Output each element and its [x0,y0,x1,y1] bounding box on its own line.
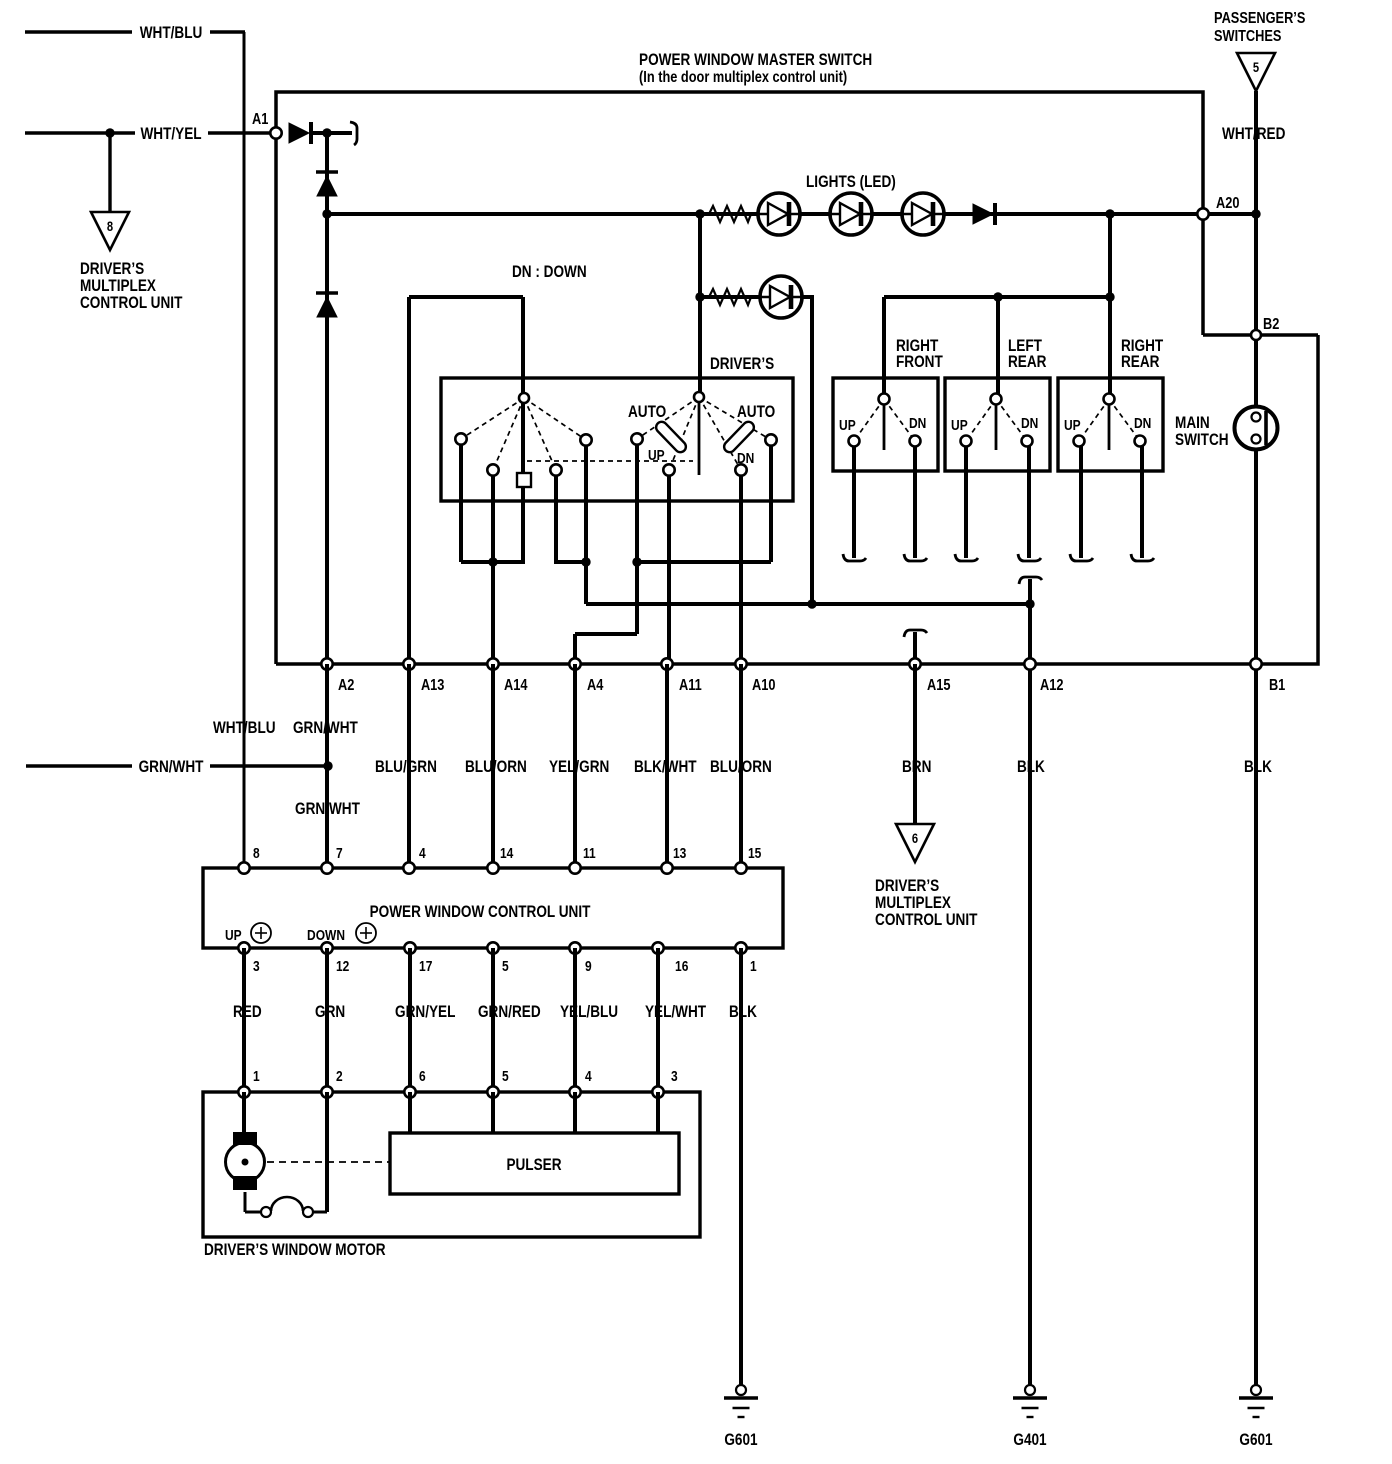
svg-text:3: 3 [671,1068,678,1085]
diode D3 (pointing up) [316,291,338,295]
ground G601 (driver) [736,1385,746,1395]
svg-text:DN: DN [909,415,926,432]
svg-text:11: 11 [583,845,596,862]
wire feed to left rear switch common [996,297,1000,399]
svg-text:5: 5 [1253,60,1259,75]
crossover wire to A12 net [586,602,1030,606]
wire RED control unit to motor [242,948,246,1092]
bus wire joining AUTO terminals [637,560,771,564]
LED L3 [902,193,944,235]
svg-text:2: 2 [336,1068,343,1085]
wire DN terminal down to A10 [739,470,743,664]
wire AUTO-right terminal down [769,440,773,562]
dashed contact line right pivot to DN terminal [699,397,741,470]
svg-text:CONTROL UNIT: CONTROL UNIT [80,294,183,313]
svg-text:A20: A20 [1216,195,1239,213]
wire GRN/WHT feed (left segment) [26,764,132,767]
dashed mechanical link between pivots [527,460,693,462]
dashed contact line left pivot to terminal 1 [461,398,524,439]
power window control unit box [203,868,783,948]
motor unit pin 2 [321,1086,332,1097]
svg-text:A1: A1 [252,111,268,129]
driver's switch terminal 4 [580,434,591,445]
wire BLK from A12 to ground G401 [1028,664,1032,1385]
svg-text:DRIVER’S: DRIVER’S [80,260,144,279]
continuation tick A12 feed [1019,577,1042,584]
junction AUTO bus [632,557,641,566]
wire GRN/RED control unit to motor [491,948,495,1092]
motor M1 [226,1143,265,1182]
control unit pin 14 [487,862,498,873]
wire A13 net vertical [407,297,411,664]
control unit pin 8 [238,862,249,873]
svg-text:MAIN: MAIN [1175,414,1210,433]
dashed contact line right pivot to UP terminal [669,397,699,470]
terminal A20 [1197,208,1208,219]
svg-text:UP: UP [1064,417,1081,434]
control unit pin 3 [238,942,249,953]
bus wire joining terminals 1-2 (A14 net) [461,560,525,564]
wire WHT/BLU feed (left segment) [25,30,132,33]
control unit pin 12 [321,942,332,953]
wire GRN/WHT net vertical (A1 to A2) [325,133,329,664]
junction A20 wire / WHT/RED vertical [1251,209,1260,218]
junction GRN/WHT feed / A2 net [323,761,332,770]
wire A13 net down to driver's switch pivot [521,297,525,562]
svg-text:GRN/WHT: GRN/WHT [293,719,358,738]
wire terminal 4 down to crossover bus [584,440,588,604]
svg-text:RED: RED [233,1003,262,1022]
svg-text:REAR: REAR [1121,353,1159,372]
motor unit pin 6 [404,1086,415,1097]
svg-text:6: 6 [419,1068,426,1085]
svg-text:SWITCH: SWITCH [1175,431,1229,450]
driver's switch DN terminal [735,464,746,475]
UP indicator lamp [251,923,271,943]
wire motor lower brush to jumper [244,1192,247,1212]
main switch S1 [1235,407,1278,450]
LED L1 [758,193,800,235]
svg-text:A15: A15 [927,677,950,695]
diode D2 (pointing up) [316,170,338,174]
continuation tick right front DN [904,554,927,561]
wire BRN from A15 to ref triangle 6 [913,664,917,824]
wire WHT/YEL feed (right segment) [208,131,272,134]
driver's switch terminal 2 [487,464,498,475]
junction of LED supply row [322,209,331,218]
wire jog to A4 [575,632,637,636]
wire jumper to pin 2 line [313,1211,327,1214]
driver's switch AUTO-left terminal [631,433,642,444]
wire BLU/ORN from A10 to pin 15 [739,664,743,868]
wire A15 stub [913,632,917,664]
driver's switch AUTO-right terminal [765,434,776,445]
junction A14 bus [488,557,497,566]
wire right rear UP output [1079,446,1083,558]
junction LED L4 output / crossover wire [807,599,816,608]
wire continuation tick after D1 [350,122,357,145]
wire BLK/WHT from A11 to pin 13 [665,664,669,868]
wire main switch to terminal B1 [1254,449,1258,664]
driver's window motor box [203,1092,700,1237]
terminal B2 [1251,330,1261,340]
control unit pin 4 [403,862,414,873]
svg-text:13: 13 [673,845,687,862]
wire terminal 1 down to A14 bus [459,439,463,562]
svg-text:DN: DN [1134,415,1151,432]
driver's switch left pivot square terminal [517,473,531,487]
continuation tick left rear DN [1018,554,1041,561]
svg-text:BLK: BLK [729,1003,757,1022]
wire WHT/BLU vertical to control unit pin 8 [243,32,246,868]
control unit pin 7 [321,862,332,873]
wire BLU/GRN from A13 to pin 4 [407,664,411,868]
svg-text:A13: A13 [421,677,444,695]
svg-text:DRIVER’S: DRIVER’S [710,355,774,374]
wire A20 to WHT/RED line [1203,212,1256,216]
svg-text:WHT/YEL: WHT/YEL [140,125,201,144]
svg-text:12: 12 [336,958,350,975]
junction LED row 1 / driver's switch supply [695,209,704,218]
svg-text:A4: A4 [587,677,603,695]
svg-text:BLK/WHT: BLK/WHT [634,758,697,777]
svg-text:PULSER: PULSER [506,1156,561,1175]
svg-text:8: 8 [107,219,113,234]
svg-text:(In the door multiplex control: (In the door multiplex control unit) [639,69,847,87]
control unit pin 13 [661,862,672,873]
svg-text:SWITCHES: SWITCHES [1214,28,1282,46]
svg-text:YEL/WHT: YEL/WHT [645,1003,707,1022]
svg-text:4: 4 [585,1068,592,1085]
driver's switch AUTO paddle (right) [722,420,756,455]
driver's switch box [441,378,793,501]
svg-text:DOWN: DOWN [307,927,345,944]
svg-text:1: 1 [253,1068,260,1085]
svg-text:POWER WINDOW CONTROL UNIT: POWER WINDOW CONTROL UNIT [370,903,591,922]
wire right front DN output [913,446,917,558]
svg-text:A12: A12 [1040,677,1063,695]
driver's switch AUTO paddle (left) [654,420,688,455]
driver's switch right pivot actuator [698,397,701,475]
terminal A13 [403,658,414,669]
ground G601 (right) [1251,1385,1261,1395]
pulser box [390,1133,679,1194]
svg-text:BLU/ORN: BLU/ORN [465,758,527,777]
wire feed to right rear switch common [1108,214,1112,398]
connector ref triangle 5 (passenger's switches) [1237,53,1275,91]
terminal A10 [735,658,746,669]
junction feed / right rear [1105,292,1114,301]
control unit pin 16 [652,942,663,953]
svg-text:BLK: BLK [1017,758,1045,777]
svg-text:DN: DN [1021,415,1038,432]
svg-text:UP: UP [839,417,856,434]
svg-text:6: 6 [912,831,918,846]
motor unit pin 4 [569,1086,580,1097]
svg-text:B1: B1 [1269,677,1285,695]
wire BLK from B1 to ground G601 [1254,664,1258,1385]
junction at A1 diode output [322,128,331,137]
terminal A12 [1024,658,1035,669]
svg-text:A2: A2 [338,677,354,695]
dashed contact line left pivot to terminal 3 [524,398,556,470]
svg-text:DRIVER’S: DRIVER’S [875,877,939,896]
driver's switch terminal 3 [550,464,561,475]
svg-text:4: 4 [419,845,426,862]
svg-text:1: 1 [750,958,757,975]
terminal A1 [270,127,281,138]
svg-text:AUTO: AUTO [628,403,666,422]
svg-text:UP: UP [648,447,665,464]
svg-text:BLU/ORN: BLU/ORN [710,758,772,777]
svg-text:DN : DOWN: DN : DOWN [512,263,587,282]
ground G401 [1025,1385,1035,1395]
wire AUTO bus down [635,562,639,634]
wire LED row 2 [700,295,813,299]
junction feed / left rear [993,292,1002,301]
svg-text:UP: UP [951,417,968,434]
motor unit pin 5 [487,1086,498,1097]
svg-text:DRIVER’S WINDOW MOTOR: DRIVER’S WINDOW MOTOR [204,1241,386,1260]
wire GRN/YEL control unit to motor [408,948,412,1092]
svg-text:G401: G401 [1013,1431,1047,1450]
wire feed to right front switch common [882,297,886,399]
svg-text:REAR: REAR [1008,353,1046,372]
svg-text:G601: G601 [1239,1431,1273,1450]
svg-text:7: 7 [336,845,343,862]
wire BLK from pin 1 to ground G601 [739,948,743,1385]
diode D1 after terminal A1 [289,123,309,143]
power window master switch boundary box [276,92,1318,664]
svg-text:14: 14 [500,845,514,862]
svg-text:9: 9 [585,958,592,975]
dashed contact line left pivot to terminal 2 [493,398,524,470]
wire terminal 3 down to A4 bus [554,470,558,562]
svg-text:5: 5 [502,958,509,975]
wire YEL/BLU control unit to motor [573,948,577,1092]
continuation tick right rear DN [1131,554,1154,561]
control unit pin 9 [569,942,580,953]
junction terminal-4 bus [581,557,590,566]
LED L4 [760,276,802,318]
svg-text:PASSENGER’S: PASSENGER’S [1214,10,1306,28]
wire motor pin to pulser [573,1092,577,1133]
wire UP terminal down to A11 [667,470,671,664]
svg-text:5: 5 [502,1068,509,1085]
wire drop to driver's multiplex control unit ref 8 [108,133,111,212]
wire WHT/YEL feed (left segment) [25,131,135,134]
wire GRN/WHT feed (right segment) [210,764,328,767]
svg-text:POWER WINDOW MASTER SWITCH: POWER WINDOW MASTER SWITCH [639,51,872,70]
wire stub after diode D1 [313,131,352,135]
svg-text:15: 15 [748,845,762,862]
wire YEL/WHT control unit to motor [656,948,660,1092]
diode D4 in LED row 1 [973,204,993,224]
wire passenger switch common feed [884,295,1110,299]
dashed contact line left pivot to terminal 4 [524,398,586,440]
svg-text:8: 8 [253,845,260,862]
wire LED L4 output down to A12 net [810,295,814,604]
LED L2 [830,193,872,235]
continuation tick A15 feed [904,630,927,637]
resistor R1 in LED row 1 [709,206,751,222]
svg-text:YEL/GRN: YEL/GRN [549,758,609,777]
DOWN indicator lamp [356,923,376,943]
wire LED row 1 (A20 net) [327,212,1203,216]
svg-text:16: 16 [675,958,689,975]
control unit pin 5 [487,942,498,953]
terminal A15 [909,658,920,669]
svg-text:UP: UP [225,927,242,944]
svg-text:FRONT: FRONT [896,353,943,372]
svg-text:WHT/BLU: WHT/BLU [140,24,203,43]
wire left rear DN output [1027,446,1031,558]
wire WHT/RED vertical [1254,91,1258,412]
terminal A2 [321,658,332,669]
svg-text:GRN/WHT: GRN/WHT [139,758,204,777]
driver's switch right pivot [694,392,704,402]
continuation tick right front UP [843,554,866,561]
dashed mechanical link motor to pulser [267,1161,390,1163]
wire down to A4 [573,634,577,664]
wire left rear UP output [964,446,968,558]
terminal A14 [487,658,498,669]
svg-text:B2: B2 [1263,316,1279,334]
svg-text:17: 17 [419,958,432,975]
svg-text:BLU/GRN: BLU/GRN [375,758,437,777]
wire motor pin to pulser [656,1092,660,1133]
terminal A11 [661,658,672,669]
right rear switch [1058,378,1163,471]
control unit pin 1 [735,942,746,953]
terminal A4 [569,658,580,669]
wire GRN control unit to motor [325,948,329,1092]
continuation tick left rear UP [955,554,978,561]
left rear switch [945,378,1050,471]
junction LED row 1 / right rear switch feed [1105,209,1114,218]
wire WHT/BLU feed (right segment) [210,30,245,33]
driver's switch terminal 1 [455,433,466,444]
svg-text:BLK: BLK [1244,758,1272,777]
svg-text:BRN: BRN [902,758,931,777]
junction crossover wire / A12 drop [1025,599,1034,608]
motor unit pin 3 [652,1086,663,1097]
junction LED row 2 [695,292,704,301]
junction on WHT/YEL wire [105,128,114,137]
svg-text:MULTIPLEX: MULTIPLEX [875,894,952,913]
right front switch [833,378,938,471]
wire pin 1 to motor brush [242,1092,246,1133]
wire terminal 2 down to A14 [491,470,495,664]
continuation tick right rear UP [1070,554,1093,561]
wire from LED row 1 junction down to driver's switch pivot [698,214,702,397]
wire right front UP output [852,446,856,558]
svg-text:A11: A11 [679,677,702,695]
driver's switch UP terminal [663,464,674,475]
wire A13 net jog [409,295,523,299]
connector ref triangle 6 (driver's multiplex control unit) [896,824,934,862]
motor unit pin 1 [238,1086,249,1097]
wire motor pin to pulser [491,1092,495,1133]
wire pin 2 down inside motor box [325,1092,329,1212]
resistor R2 in LED row 2 [709,289,751,305]
motor jumper contacts and arc [261,1207,271,1217]
svg-text:WHT/BLU: WHT/BLU [213,719,276,738]
svg-text:DN: DN [737,450,754,467]
svg-text:YEL/BLU: YEL/BLU [560,1003,618,1022]
svg-text:GRN/RED: GRN/RED [478,1003,541,1022]
control unit pin 17 [404,942,415,953]
connector ref triangle 8 (driver's multiplex control unit) [91,212,129,250]
wire A12 stub [1028,579,1032,664]
wire motor pin to pulser [408,1092,412,1133]
wire YEL/GRN from A4 to pin 11 [573,664,577,868]
svg-text:AUTO: AUTO [737,403,775,422]
svg-text:A10: A10 [752,677,775,695]
wire GRN/WHT from A2 to pin 7 [325,664,329,868]
svg-text:GRN/YEL: GRN/YEL [395,1003,455,1022]
control unit pin 11 [569,862,580,873]
wire BLU/ORN from A14 to pin 14 [491,664,495,868]
svg-text:GRN: GRN [315,1003,345,1022]
wire AUTO-left terminal down [635,439,639,562]
svg-text:3: 3 [253,958,260,975]
svg-text:A14: A14 [504,677,527,695]
dashed contact line right pivot to AUTO-right terminal [699,397,771,440]
dashed contact line right pivot to AUTO-left terminal [637,397,699,439]
svg-text:G601: G601 [724,1431,758,1450]
terminal B1 [1250,658,1261,669]
driver's switch left pivot [519,393,529,403]
wire right rear DN output [1140,446,1144,558]
svg-text:MULTIPLEX: MULTIPLEX [80,277,157,296]
wire B2 jog of master switch boundary [1203,333,1318,337]
svg-text:CONTROL UNIT: CONTROL UNIT [875,911,978,930]
svg-text:LIGHTS (LED): LIGHTS (LED) [806,173,896,192]
control unit pin 15 [735,862,746,873]
bus wire joining terminals 3-4 [554,560,588,564]
svg-text:GRN/WHT: GRN/WHT [295,800,360,819]
svg-text:WHT/RED: WHT/RED [1222,125,1285,144]
